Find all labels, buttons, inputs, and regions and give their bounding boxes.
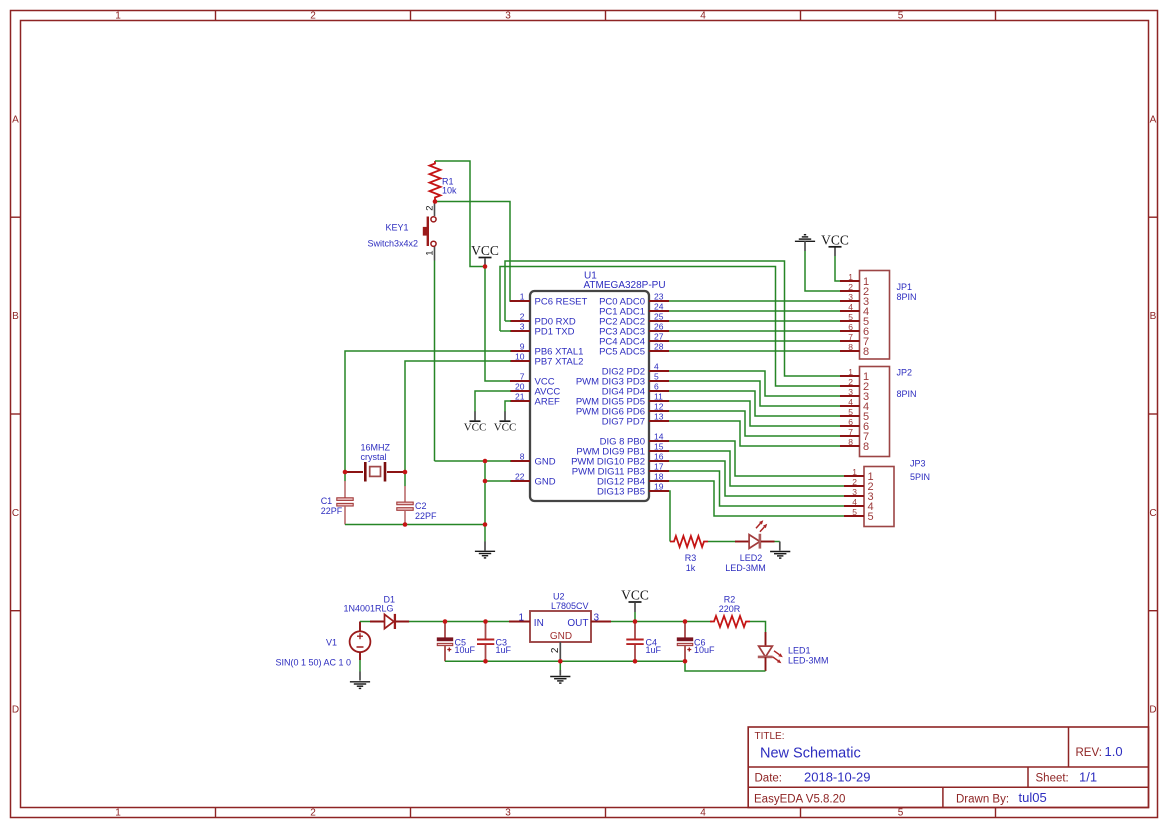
power symbol VCC at x=635	[621, 588, 649, 603]
svg-text:1.0: 1.0	[1105, 744, 1123, 759]
svg-text:D: D	[1149, 705, 1156, 716]
wire	[485, 461, 511, 481]
U1 pin 5 PWM DIG3 PD3	[576, 372, 669, 388]
svg-text:3: 3	[520, 322, 525, 332]
U1 pin 24 PC1 ADC1	[599, 302, 669, 318]
svg-text:3: 3	[505, 808, 511, 819]
label LED2 LED-3MM	[725, 553, 766, 573]
wire	[669, 330, 840, 332]
svg-text:SIN(0 1 50) AC 1 0: SIN(0 1 50) AC 1 0	[276, 658, 352, 668]
capacitor C5	[437, 623, 452, 661]
svg-text:5: 5	[848, 312, 853, 322]
U1 pin 18 DIG12 PB4	[597, 472, 669, 488]
svg-text:4: 4	[654, 362, 659, 372]
svg-text:4: 4	[852, 497, 857, 507]
wire	[669, 481, 844, 516]
ground symbol at x=560.3	[550, 677, 570, 684]
svg-text:LED2: LED2	[740, 553, 763, 563]
wire	[409, 621, 509, 623]
wire	[505, 261, 840, 376]
svg-text:16MHZ: 16MHZ	[361, 443, 391, 453]
diode D1	[370, 614, 409, 629]
U1 pin 8 GND	[510, 452, 556, 468]
svg-text:GND: GND	[535, 477, 556, 488]
svg-text:24: 24	[654, 302, 664, 312]
svg-text:4: 4	[700, 11, 706, 22]
svg-text:GND: GND	[535, 457, 556, 468]
capacitor C3	[477, 623, 494, 661]
svg-text:14: 14	[654, 432, 664, 442]
svg-text:8: 8	[848, 437, 853, 447]
svg-text:A: A	[12, 114, 19, 125]
wire	[669, 340, 840, 342]
svg-text:B: B	[12, 311, 19, 322]
svg-text:12: 12	[654, 402, 664, 412]
power symbol VCC (top, x=485)	[484, 259, 486, 266]
svg-text:1: 1	[425, 251, 436, 256]
wire	[669, 461, 844, 496]
svg-text:1/1: 1/1	[1079, 770, 1097, 785]
svg-text:D: D	[12, 705, 19, 716]
svg-text:5PIN: 5PIN	[910, 472, 930, 482]
svg-text:AREF: AREF	[535, 397, 561, 408]
wire	[475, 391, 511, 412]
svg-text:JP3: JP3	[910, 459, 926, 469]
svg-text:2: 2	[848, 282, 853, 292]
U1 pin 17 PWM DIG11 PB3	[572, 462, 669, 478]
wire	[669, 300, 840, 302]
svg-text:3: 3	[852, 487, 857, 497]
capacitor C4	[626, 623, 643, 661]
wire	[805, 251, 840, 291]
wire	[669, 471, 844, 506]
svg-text:5: 5	[868, 511, 874, 523]
voltage source V1	[350, 622, 371, 661]
wire	[669, 310, 840, 312]
svg-text:8: 8	[520, 452, 525, 462]
svg-text:1: 1	[520, 292, 525, 302]
svg-text:LED-3MM: LED-3MM	[725, 563, 766, 573]
wire	[559, 663, 561, 670]
svg-text:PB7 XTAL2: PB7 XTAL2	[535, 357, 584, 368]
wire	[835, 256, 840, 281]
resistor R1	[430, 161, 441, 201]
label R3 1k	[685, 553, 697, 573]
connector JP2	[840, 367, 890, 457]
LED LED1	[758, 632, 783, 671]
node VCC out	[633, 619, 638, 624]
wire	[669, 401, 840, 426]
U1 pin 15 PWM DIG9 PB1	[576, 442, 669, 458]
ground symbol at x=360	[350, 682, 370, 689]
svg-text:1: 1	[115, 808, 121, 819]
U1 pin 10 PB7 XTAL2	[510, 352, 583, 368]
wire	[669, 371, 840, 396]
connector JP1	[840, 271, 890, 360]
power symbol VCC at x=475	[464, 421, 487, 434]
svg-text:2: 2	[852, 477, 857, 487]
svg-text:B: B	[1150, 311, 1157, 322]
wire	[669, 411, 840, 436]
svg-text:7: 7	[848, 427, 853, 437]
wire	[669, 491, 670, 542]
U1 pin 2 PD0 RXD	[510, 312, 576, 328]
svg-text:2: 2	[425, 206, 436, 211]
wire	[484, 481, 486, 525]
wire	[484, 525, 486, 542]
svg-text:LED-3MM: LED-3MM	[788, 656, 829, 666]
svg-text:VCC: VCC	[494, 422, 517, 434]
wire	[345, 351, 511, 482]
node C6 bottom	[683, 659, 688, 664]
svg-text:1: 1	[518, 613, 524, 624]
svg-text:Date:: Date:	[755, 773, 783, 785]
svg-text:8: 8	[863, 346, 869, 358]
svg-text:L7805CV: L7805CV	[551, 601, 589, 611]
node GND junction 2	[483, 479, 488, 484]
U1 pin 16 PWM DIG10 PB2	[571, 452, 669, 468]
svg-text:ATMEGA328P-PU: ATMEGA328P-PU	[584, 280, 666, 291]
svg-text:8: 8	[848, 342, 853, 352]
node C2 gnd node	[403, 522, 408, 527]
label C6 10uF	[694, 638, 715, 656]
crystal Y1 16MHZ	[345, 462, 405, 482]
svg-text:2: 2	[310, 11, 316, 22]
svg-text:11: 11	[654, 392, 663, 402]
svg-text:PD1 TXD: PD1 TXD	[535, 327, 575, 338]
label LED1 LED-3MM	[788, 646, 829, 666]
wire	[750, 622, 766, 633]
node C5 top	[443, 619, 448, 624]
svg-text:8PIN: 8PIN	[897, 292, 917, 302]
svg-text:220R: 220R	[719, 604, 741, 614]
power symbol VCC (supply)	[634, 603, 636, 612]
ground symbol at x=485	[475, 551, 495, 558]
svg-text:JP1: JP1	[897, 282, 913, 292]
svg-text:8: 8	[863, 441, 869, 453]
label R1 10k	[442, 177, 457, 196]
wire	[435, 202, 528, 302]
wire	[359, 660, 361, 672]
svg-text:26: 26	[654, 322, 664, 332]
U1 pin 6 DIG4 PD4	[602, 382, 669, 398]
svg-text:22: 22	[515, 472, 525, 482]
wire	[669, 451, 844, 486]
svg-text:9: 9	[520, 342, 525, 352]
power symbol VCC at x=835	[821, 232, 849, 247]
label C4 1uF	[646, 638, 662, 656]
U1 pin 13 DIG7 PD7	[602, 412, 669, 428]
svg-text:LED1: LED1	[788, 646, 811, 656]
node C6 top	[683, 619, 688, 624]
U1 pin 21 AREF	[510, 392, 560, 408]
svg-text:13: 13	[654, 412, 664, 422]
label C5 10uF	[455, 638, 476, 656]
U1 pin 28 PC5 ADC5	[599, 342, 669, 358]
wire	[435, 460, 512, 462]
svg-text:DIG7 PD7: DIG7 PD7	[602, 417, 645, 428]
svg-text:4: 4	[700, 808, 706, 819]
ground symbol at x=780.2	[770, 552, 790, 559]
svg-text:Drawn By:: Drawn By:	[956, 793, 1009, 805]
capacitor C2	[397, 486, 413, 525]
wire	[360, 621, 371, 623]
svg-text:REV:: REV:	[1076, 747, 1102, 759]
svg-text:PC5 ADC5: PC5 ADC5	[599, 347, 645, 358]
node XTAL1 node	[343, 470, 348, 475]
U1 pin 7 VCC	[510, 372, 555, 388]
svg-text:1N4001RLG: 1N4001RLG	[344, 604, 394, 614]
svg-text:KEY1: KEY1	[385, 223, 408, 233]
wire	[435, 161, 483, 267]
svg-text:6: 6	[848, 322, 853, 332]
node C4 bottom	[633, 659, 638, 664]
op-amp U1 ATMEGA328P-PU body	[530, 291, 649, 501]
svg-text:20: 20	[515, 382, 525, 392]
U1 pin 9 PB6 XTAL1	[510, 342, 583, 358]
svg-text:VCC: VCC	[464, 422, 487, 434]
svg-text:GND: GND	[550, 631, 572, 642]
svg-text:New Schematic: New Schematic	[760, 746, 861, 762]
wire	[445, 660, 685, 662]
wire	[669, 320, 840, 322]
svg-text:tul05: tul05	[1019, 790, 1047, 805]
svg-text:2: 2	[310, 808, 316, 819]
svg-text:C: C	[12, 508, 19, 519]
U1 pin 14 DIG 8 PB0	[600, 432, 669, 448]
svg-text:R3: R3	[685, 553, 697, 563]
resistor R3	[670, 536, 708, 547]
wire	[775, 541, 780, 543]
svg-text:5: 5	[898, 808, 904, 819]
node gnd rail node	[483, 522, 488, 527]
svg-text:10uF: 10uF	[694, 645, 715, 655]
svg-text:C: C	[1149, 508, 1156, 519]
svg-text:28: 28	[654, 342, 664, 352]
svg-text:10k: 10k	[442, 186, 457, 196]
svg-text:C2: C2	[415, 501, 427, 511]
svg-text:Sheet:: Sheet:	[1036, 773, 1069, 785]
node XTAL2 node	[403, 470, 408, 475]
label C2 22PF	[415, 501, 437, 521]
node C3 bottom	[483, 659, 488, 664]
U1 pin 19 DIG13 PB5	[597, 482, 669, 498]
wire	[434, 261, 436, 462]
title block	[748, 727, 1148, 808]
svg-text:crystal: crystal	[361, 452, 387, 462]
svg-text:7: 7	[848, 332, 853, 342]
label C3 1uF	[496, 638, 512, 656]
svg-text:Switch3x4x2: Switch3x4x2	[367, 239, 418, 249]
U1 pin 26 PC3 ADC3	[599, 322, 669, 338]
svg-text:A: A	[1150, 114, 1157, 125]
label JP1 8PIN	[897, 282, 917, 302]
svg-text:6: 6	[654, 382, 659, 392]
power symbol VCC at x=505	[494, 421, 517, 434]
svg-text:OUT: OUT	[567, 618, 588, 629]
svg-text:16: 16	[654, 452, 664, 462]
svg-text:4: 4	[848, 302, 853, 312]
svg-text:17: 17	[654, 462, 664, 472]
label JP2 8PIN	[897, 368, 917, 400]
wire	[708, 541, 736, 543]
svg-text:18: 18	[654, 472, 664, 482]
svg-text:6: 6	[848, 417, 853, 427]
svg-text:3: 3	[505, 11, 511, 22]
wire	[505, 401, 511, 412]
svg-text:22PF: 22PF	[321, 506, 343, 516]
label R2 220R	[719, 595, 741, 615]
node U2 gnd	[558, 659, 563, 664]
wire	[669, 391, 840, 416]
svg-text:25: 25	[654, 312, 664, 322]
svg-text:V1: V1	[326, 638, 337, 648]
svg-text:VCC: VCC	[821, 232, 849, 247]
svg-text:2: 2	[848, 377, 853, 387]
title block texts	[754, 731, 1123, 805]
svg-text:19: 19	[654, 482, 664, 492]
label KEY1 Switch3x4x2	[367, 223, 418, 249]
svg-text:1: 1	[848, 272, 853, 282]
U1 pin 1 PC6 RESET	[510, 292, 587, 308]
node C3 top	[483, 619, 488, 624]
svg-text:1uF: 1uF	[496, 645, 512, 655]
svg-text:27: 27	[654, 332, 664, 342]
wire	[634, 612, 636, 622]
svg-text:1: 1	[848, 367, 853, 377]
svg-text:C1: C1	[321, 496, 333, 506]
capacitor C1	[337, 481, 353, 525]
svg-text:4: 4	[848, 397, 853, 407]
svg-text:15: 15	[654, 442, 664, 452]
connector JP3	[844, 467, 894, 527]
power symbol VCC at x=485	[471, 243, 499, 258]
label JP3 5PIN	[910, 459, 930, 483]
U1 pin 3 PD1 TXD	[510, 322, 575, 338]
node GND junction 1	[483, 459, 488, 464]
svg-text:3: 3	[848, 292, 853, 302]
label 16MHZ crystal	[361, 443, 391, 463]
label D1 1N4001RLG	[344, 595, 396, 614]
svg-text:5: 5	[898, 11, 904, 22]
svg-text:JP2: JP2	[897, 368, 913, 378]
svg-text:U2: U2	[553, 592, 565, 602]
svg-text:7: 7	[520, 372, 525, 382]
wire	[500, 267, 840, 387]
svg-text:10uF: 10uF	[455, 645, 476, 655]
power symbol VCC (top right)	[834, 248, 836, 257]
svg-text:10: 10	[515, 352, 525, 362]
wire	[505, 320, 511, 322]
svg-text:5: 5	[654, 372, 659, 382]
label C1 22PF	[321, 496, 343, 516]
U1 pin 22 GND	[510, 472, 556, 488]
ground symbol at x=805	[795, 235, 815, 242]
svg-text:23: 23	[654, 292, 664, 302]
capacitor C6	[677, 623, 692, 661]
U1 pin 25 PC2 ADC2	[599, 312, 669, 328]
svg-text:5: 5	[848, 407, 853, 417]
resistor R2	[710, 616, 750, 627]
wire	[500, 330, 511, 332]
svg-text:2: 2	[520, 312, 525, 322]
wire	[669, 421, 840, 446]
U1 pin 23 PC0 ADC0	[599, 292, 669, 308]
U1 pin 27 PC4 ADC4	[599, 332, 669, 348]
svg-text:3: 3	[848, 387, 853, 397]
svg-text:R2: R2	[724, 595, 736, 605]
wire	[669, 350, 840, 352]
LED LED2	[735, 520, 775, 548]
svg-text:VCC: VCC	[621, 588, 649, 603]
svg-text:PC6 RESET: PC6 RESET	[535, 297, 588, 308]
wire	[485, 268, 511, 381]
svg-text:8PIN: 8PIN	[897, 389, 917, 399]
svg-text:1: 1	[852, 467, 857, 477]
svg-text:DIG13 PB5: DIG13 PB5	[597, 487, 645, 498]
wire	[669, 381, 840, 406]
node R1/KEY1 junction	[433, 199, 438, 204]
wire	[685, 661, 766, 671]
svg-text:2: 2	[550, 647, 561, 653]
U1 pin 20 AVCC	[510, 382, 560, 398]
svg-text:5: 5	[852, 507, 857, 517]
svg-text:VCC: VCC	[471, 243, 499, 258]
svg-text:22PF: 22PF	[415, 511, 437, 521]
label U2 L7805CV	[551, 592, 589, 612]
svg-text:TITLE:: TITLE:	[755, 731, 785, 742]
U1 pin 4 DIG2 PD2	[602, 362, 669, 378]
switch KEY1	[423, 203, 436, 261]
svg-text:21: 21	[515, 392, 525, 402]
svg-text:EasyEDA V5.8.20: EasyEDA V5.8.20	[754, 793, 845, 805]
U1 pin 11 PWM DIG5 PD5	[576, 392, 669, 408]
svg-text:1uF: 1uF	[646, 645, 662, 655]
wire	[345, 524, 485, 526]
wire	[611, 621, 712, 623]
node VCC junction	[483, 264, 488, 269]
regulator U2 L7805CV	[509, 611, 611, 661]
svg-text:2018-10-29: 2018-10-29	[804, 770, 871, 785]
svg-text:3: 3	[594, 613, 600, 624]
svg-text:1: 1	[115, 11, 121, 22]
wire	[669, 441, 844, 476]
svg-text:1k: 1k	[686, 563, 696, 573]
wire	[405, 361, 511, 487]
svg-text:IN: IN	[534, 618, 544, 629]
U1 pin 12 PWM DIG6 PD6	[576, 402, 669, 418]
